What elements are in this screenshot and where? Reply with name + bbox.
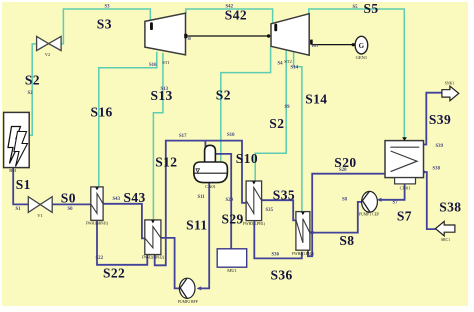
svg-text:S20: S20 — [339, 168, 347, 173]
svg-text:CN01: CN01 — [400, 186, 411, 191]
svg-text:S43: S43 — [113, 197, 121, 202]
wire S14 (turbine ST2 extraction to FWH4 top) — [294, 52, 302, 211]
svg-text:S36: S36 — [271, 267, 293, 282]
valve V2 — [37, 36, 62, 50]
junction node on S20/S8 — [311, 231, 314, 234]
svg-text:S35: S35 — [273, 188, 295, 203]
wire S8 (pump PUMP1 CEP to FWH4 right) — [310, 202, 362, 233]
makeup box MU1 — [217, 249, 247, 267]
wire S36 (FWH3 bottom to FWH4 bottom) — [254, 221, 301, 259]
condenser CN01 — [385, 141, 424, 184]
wire S2 branch (turbine ST2 extraction to deaerator CA01) — [221, 47, 271, 163]
svg-text:V1: V1 — [37, 213, 43, 218]
heat exchanger FWH2 — [145, 220, 161, 255]
arrowhead into pump CEP — [377, 198, 382, 202]
arrowhead into pump BFP — [197, 286, 202, 290]
svg-text:S42: S42 — [226, 5, 234, 10]
svg-text:PUMP1 CEP: PUMP1 CEP — [359, 212, 379, 216]
svg-text:S38: S38 — [433, 167, 441, 172]
arrowhead into FWH3 top — [252, 181, 256, 184]
svg-text:S11: S11 — [198, 195, 206, 200]
svg-text:S14: S14 — [305, 92, 327, 107]
wire S2 branch (turbine ST2 extraction to FWH3 top) — [255, 50, 286, 181]
svg-text:S39: S39 — [429, 112, 451, 127]
heat exchanger FWH1 — [91, 187, 103, 220]
wire FWH2 right to pump PUMP2 BFP left — [161, 238, 180, 289]
svg-text:B01: B01 — [9, 168, 17, 173]
svg-text:S2: S2 — [28, 91, 34, 96]
pin turbine ST1 inlet — [150, 22, 153, 30]
shaft node at generator — [352, 43, 355, 46]
shaft turbine ST2 to generator GEN1 — [312, 44, 353, 46]
svg-text:S2: S2 — [216, 88, 231, 103]
pump PUMP1 CEP — [362, 191, 378, 212]
svg-text:S36: S36 — [272, 253, 280, 258]
wire S42 (turbine ST1 top to turbine ST2 inlet) — [186, 9, 273, 24]
svg-text:SRC1: SRC1 — [441, 238, 450, 242]
wire S11 (deaerator bottom to pump PUMP2 BFP) — [199, 183, 210, 289]
svg-text:S39: S39 — [436, 144, 444, 149]
svg-text:E01: E01 — [312, 44, 318, 48]
arrowhead into FWH2 top — [151, 220, 155, 223]
shaft node at ST2 inlet — [267, 34, 270, 37]
arrowhead into FWH4 top — [301, 212, 305, 215]
svg-text:S10: S10 — [236, 151, 258, 166]
arrowhead into FWH1 top — [95, 187, 99, 190]
svg-text:G: G — [359, 42, 365, 50]
pin turbine ST2 outlet — [310, 40, 313, 45]
svg-text:S10: S10 — [227, 133, 235, 138]
svg-text:S0: S0 — [68, 207, 74, 212]
svg-text:S29: S29 — [222, 212, 244, 227]
svg-text:S13: S13 — [161, 87, 169, 92]
wire S22 (FWH1 bottom to FWH2 bottom-left) — [97, 220, 147, 265]
svg-text:ST2: ST2 — [284, 59, 292, 64]
valve V1 — [28, 197, 52, 213]
pin turbine ST1 outlet — [184, 34, 187, 38]
svg-text:S3: S3 — [105, 5, 111, 10]
svg-text:FWH2(HPH2): FWH2(HPH2) — [142, 255, 165, 259]
svg-text:S7: S7 — [393, 201, 399, 206]
wire S43 (FWH1 right to FWH2 left) — [103, 204, 145, 239]
source arrow SRC1 — [435, 221, 455, 235]
svg-text:S16: S16 — [91, 105, 113, 120]
junction node at condenser right-bottom — [422, 171, 425, 174]
shaft turbine ST1 to ST2 — [186, 35, 271, 37]
svg-text:S8: S8 — [342, 197, 348, 202]
wire S35 (FWH3 right to FWH4 left) — [262, 200, 296, 220]
svg-text:S22: S22 — [103, 265, 125, 280]
svg-text:S1: S1 — [16, 177, 31, 192]
svg-text:S0: S0 — [61, 190, 76, 205]
svg-text:S8: S8 — [339, 233, 354, 248]
svg-text:S17: S17 — [179, 134, 187, 139]
wire S5/S6 (turbine ST2 top to condenser CN01) — [309, 9, 405, 139]
deaerator CA01 — [194, 145, 228, 182]
wire S7 (condenser hotwell to pump PUMP1 CEP) — [379, 184, 405, 200]
svg-text:S22: S22 — [96, 256, 104, 261]
wire S16 (turbine ST1 extraction to FWH1 top) — [99, 52, 157, 188]
svg-text:S5: S5 — [364, 1, 379, 16]
wire S12/S17 bus (FWH2 bottom-right up to deaerator bus over to FWH3 left) — [155, 141, 247, 266]
svg-text:S7: S7 — [397, 209, 412, 224]
turbine ST1 — [145, 13, 186, 55]
pin turbine ST2 inlet — [274, 24, 277, 32]
wire S38 (condenser right-bottom to source SRC1) — [423, 172, 435, 229]
svg-text:S42: S42 — [225, 8, 247, 23]
svg-text:S3: S3 — [97, 16, 112, 31]
svg-text:S2: S2 — [269, 116, 284, 131]
wire S29 (deaerator dome right to MU1 top) — [216, 154, 232, 249]
svg-text:V2: V2 — [45, 52, 51, 57]
svg-text:S9: S9 — [285, 105, 291, 110]
svg-text:S14: S14 — [291, 66, 299, 71]
svg-text:S12: S12 — [155, 155, 177, 170]
svg-text:S43: S43 — [124, 190, 146, 205]
wire S13 (turbine ST1 extraction to FWH2 top) — [153, 53, 163, 220]
svg-text:S38: S38 — [439, 200, 461, 215]
svg-text:S2: S2 — [25, 72, 40, 87]
svg-text:S29: S29 — [226, 198, 234, 203]
svg-text:S16: S16 — [149, 63, 157, 68]
wire S20 (FWH4 bottom-right to condenser CN01 left) — [308, 174, 385, 257]
svg-text:FWH3(LPH1): FWH3(LPH1) — [243, 222, 266, 226]
wire S3 (valve V2 to turbine ST1 inlet) — [61, 9, 150, 44]
heat exchanger FWH4 — [296, 212, 310, 251]
wire stub into deaerator dome top — [204, 141, 206, 147]
turbine ST2 — [271, 14, 309, 56]
svg-text:S35: S35 — [266, 208, 274, 213]
wire S39 (condenser right-top to sink SNK1) — [423, 93, 442, 145]
svg-text:S5: S5 — [353, 5, 359, 10]
wire S1 (boiler B01 to valve V1) — [13, 168, 28, 205]
svg-text:S11: S11 — [186, 218, 207, 233]
svg-text:MU1: MU1 — [227, 268, 237, 273]
svg-text:S1: S1 — [16, 207, 22, 212]
generator GEN1 — [355, 36, 368, 54]
svg-text:SNK1: SNK1 — [445, 81, 455, 85]
svg-text:FWH4(LPH2): FWH4(LPH2) — [292, 252, 315, 256]
svg-text:CA01: CA01 — [205, 184, 216, 189]
svg-text:18: 18 — [187, 37, 191, 41]
svg-text:ST1: ST1 — [162, 60, 170, 65]
sink arrow SNK1 — [442, 86, 459, 101]
heat exchanger FWH3 — [246, 181, 262, 221]
boiler B01 — [4, 112, 30, 167]
svg-text:GEN1: GEN1 — [356, 55, 368, 60]
arrowhead into condenser top — [402, 137, 407, 141]
wire S0 (valve V1 to FWH1 left) — [52, 203, 91, 205]
wire S2 (valve V2 to boiler) — [29, 44, 36, 135]
svg-text:PUMP2 BFP: PUMP2 BFP — [178, 300, 198, 304]
svg-text:S4: S4 — [278, 62, 284, 67]
svg-text:FWH1(HPH1): FWH1(HPH1) — [86, 222, 109, 226]
pump PUMP2 BFP — [179, 278, 195, 298]
